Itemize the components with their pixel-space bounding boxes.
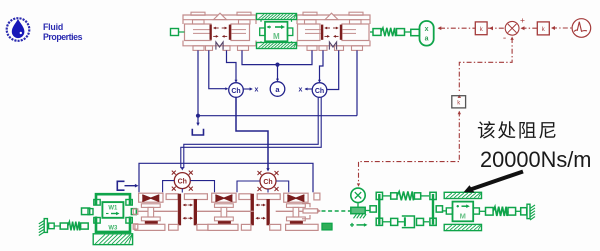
mass bottom plate <box>444 224 481 230</box>
direction indicator <box>350 224 354 226</box>
svg-text:x: x <box>425 26 429 33</box>
svg-text:M: M <box>273 32 280 41</box>
mass M box <box>453 202 474 222</box>
pipe: long manifold line bottom <box>139 163 313 192</box>
pipe: top Ch1 down to bottom Ch2 <box>236 97 268 170</box>
green body terminator <box>322 223 332 230</box>
hydraulic motor M <box>265 22 288 42</box>
valve input signal port <box>171 29 179 36</box>
svg-text:W3: W3 <box>108 225 118 231</box>
mechanical dashed link to sensor <box>322 210 351 212</box>
top valve assembly: left servo valve body <box>183 15 256 24</box>
left wall <box>44 219 47 233</box>
valve element 1: poppet + piston <box>139 193 163 202</box>
right valve chambers <box>298 24 321 41</box>
valve element 6: rod end <box>314 193 320 200</box>
mass base hatch <box>93 234 132 245</box>
svg-text:+: + <box>520 15 525 25</box>
bottom Ch wires <box>163 181 175 193</box>
dash line k1 to sensor capsule <box>440 27 475 29</box>
line k2 to sum <box>522 27 538 29</box>
line sum to gain k1 <box>488 27 505 29</box>
svg-text:Fluid: Fluid <box>43 22 63 32</box>
gain k1 <box>475 22 487 35</box>
pipe: port to Ch2 top <box>320 50 324 81</box>
sensor to bracket link <box>365 210 370 212</box>
annotation chinese <box>478 121 495 138</box>
spring-mass block W1 W3 <box>96 194 130 205</box>
svg-text:a: a <box>425 36 429 43</box>
pipe: port to Ch left side <box>209 50 227 88</box>
spring to mass sensor <box>370 31 373 33</box>
valve element 3: poppet + piston <box>212 193 236 202</box>
damper input port <box>82 208 90 215</box>
tank <box>192 129 203 135</box>
gain k2 <box>537 22 549 35</box>
fluid properties icon <box>7 18 30 41</box>
gain k3 <box>452 96 466 108</box>
feedback path down <box>510 37 513 40</box>
damper branch <box>383 221 391 223</box>
valve element 2: spool section <box>166 194 178 200</box>
valve element 4: spool section <box>239 194 251 200</box>
right valve spool lands <box>321 25 323 40</box>
accel sensor a <box>270 82 285 97</box>
svg-text:x: x <box>299 87 303 94</box>
flow sensor Ch right <box>312 83 327 98</box>
hydraulic motor unit casing top <box>257 14 297 20</box>
left spring <box>49 223 55 229</box>
pipe: tank line to right valve port <box>198 115 357 117</box>
spool arrows <box>215 27 219 29</box>
svg-text:Ch: Ch <box>315 88 324 95</box>
node terminator <box>117 181 124 190</box>
left valve spool lands <box>210 25 212 40</box>
force sensor base <box>351 207 365 213</box>
svg-text:Ch: Ch <box>178 178 187 185</box>
pipe: left valve port to tank junction <box>197 50 199 115</box>
bottom valve axis line <box>138 210 148 212</box>
top strip chevrons <box>214 13 227 19</box>
svg-text:Ch: Ch <box>263 179 272 186</box>
summing junction <box>505 21 519 35</box>
pipe: top Ch2 down to bottom Ch1 (double) <box>184 97 318 168</box>
valve centering springs <box>216 42 223 50</box>
force sensor circle <box>351 188 365 202</box>
valve body boxes <box>135 224 165 230</box>
svg-text:Ch: Ch <box>231 88 240 95</box>
bottom Ch right <box>260 173 276 189</box>
svg-text:x: x <box>255 87 259 94</box>
line source to gain k2 <box>552 27 572 29</box>
interface ports red <box>133 209 138 214</box>
displacement sensor body <box>411 29 420 35</box>
pipe: port to Ch top <box>227 50 237 81</box>
svg-text:20000Ns/m: 20000Ns/m <box>480 147 591 172</box>
pipe: cross line with junction to a <box>242 50 312 64</box>
parallel spring damper: left bracket <box>370 206 376 212</box>
signal source <box>572 19 591 38</box>
svg-text:M: M <box>460 212 466 221</box>
mass with friction: top plate <box>444 192 481 198</box>
left valve chambers <box>185 24 212 41</box>
hydraulic motor unit casing bottom <box>257 43 297 49</box>
svg-text:Properties: Properties <box>43 32 83 42</box>
flow sensor Ch left <box>229 83 244 98</box>
annotation arrow <box>469 172 523 191</box>
multiply x left <box>243 88 251 90</box>
spring branch <box>383 195 391 197</box>
valve element 5: poppet + piston <box>284 193 308 202</box>
right wall <box>527 204 530 218</box>
bottom Ch left <box>174 173 190 189</box>
svg-text:W1: W1 <box>108 206 118 212</box>
right spring <box>479 210 485 212</box>
right bracket <box>432 194 434 225</box>
svg-text:-: - <box>503 33 506 44</box>
feedback path to force sensor <box>359 112 460 185</box>
pipe: port to Ch2 right <box>327 50 339 89</box>
